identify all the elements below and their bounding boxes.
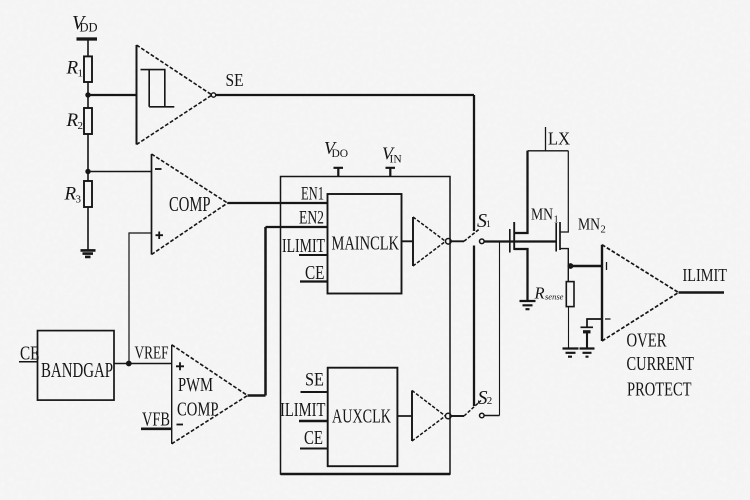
label SE (226, 70, 244, 90)
wire ILIMIT stub mainclk (299, 254, 328, 256)
PWM label (178, 375, 213, 396)
wire COMP output to EN1 (228, 202, 328, 204)
wire CE into bandgap (19, 361, 38, 363)
label EN2 (299, 208, 324, 229)
svg-text:PROTECT: PROTECT (627, 380, 692, 401)
svg-text:CE: CE (304, 428, 323, 449)
svg-text:DD: DD (80, 21, 98, 35)
COMP minus sign (155, 168, 162, 170)
resistor R1 (84, 56, 92, 82)
svg-text:OVER: OVER (627, 331, 667, 352)
wire bubble to switch S2 (451, 415, 464, 417)
svg-text:AUXCLK: AUXCLK (332, 406, 391, 428)
node VREF junction dot (126, 361, 132, 367)
wire EN2 from PWM riser (266, 226, 328, 228)
wire S2 riser join (499, 241, 501, 415)
LX label (548, 129, 570, 149)
resistor R2 (84, 108, 92, 134)
switch S1 arm (464, 229, 480, 242)
MAINCLK label (332, 233, 400, 255)
wire S1 to gates (484, 240, 556, 242)
transistor MN1 gate bar (509, 229, 511, 253)
LX bar (528, 127, 569, 151)
wire VREF riser to COMP plus (129, 233, 152, 364)
MN1 drain link (514, 151, 527, 233)
COMP label (169, 192, 211, 216)
PWM COMP label (177, 400, 219, 421)
resistor R3 label (64, 184, 82, 206)
wire node A to schmitt input (88, 94, 137, 96)
node A junction dot (85, 92, 90, 97)
wire R3 to ground (87, 207, 89, 250)
resistor R3 (84, 181, 92, 207)
wire node B to COMP minus input (88, 171, 152, 173)
svg-text:EN1: EN1 (301, 184, 324, 205)
wire SE riser lower segment (473, 246, 475, 407)
opamp plus sign (606, 262, 608, 270)
node B junction dot (85, 169, 90, 174)
svg-text:1: 1 (486, 220, 491, 230)
svg-text:sense: sense (545, 292, 564, 302)
inverter U3 triangle (413, 217, 446, 266)
svg-text:VREF: VREF (135, 343, 169, 363)
label ILIMIT auxclk (280, 400, 326, 421)
resistor Rsense (566, 282, 574, 307)
inverter U3 bubble (446, 239, 452, 245)
wire PWM riser (264, 227, 267, 396)
transistor MN1 channel bar (513, 222, 515, 250)
wire opamp minus input (587, 319, 602, 327)
ground below MN1 (520, 301, 536, 309)
outer clock block box (281, 177, 451, 475)
label CE mainclk (305, 262, 325, 284)
schmitt output bubble (211, 93, 215, 97)
schmitt hysteresis symbol (141, 70, 175, 107)
label EN1 (301, 184, 324, 205)
label VREF (135, 343, 169, 363)
label OVER (627, 331, 667, 352)
svg-text:2: 2 (78, 120, 84, 132)
svg-text:CURRENT: CURRENT (627, 354, 695, 375)
wire PWM output (248, 394, 266, 397)
VDD supply label (72, 12, 98, 35)
svg-text:SE: SE (226, 70, 244, 90)
schmitt trigger U1 triangle (137, 45, 213, 145)
switch S2 label (478, 387, 493, 409)
op-amp PWM COMP triangle (172, 345, 248, 444)
Rsense label (534, 284, 564, 303)
svg-text:ILIMIT: ILIMIT (282, 236, 325, 257)
MN2 label (578, 215, 606, 236)
node sense junction dot (568, 263, 574, 269)
inverter U7 triangle (412, 391, 445, 442)
svg-text:VFB: VFB (142, 410, 170, 431)
svg-text:MN: MN (531, 205, 553, 224)
wire AUXCLK output (397, 415, 412, 417)
MN2 source link (560, 249, 568, 282)
wire CE stub mainclk (300, 280, 328, 282)
wire VDD bar to R1 (87, 40, 89, 56)
svg-text:COMP: COMP (169, 192, 211, 216)
svg-text:MAINCLK: MAINCLK (332, 233, 400, 255)
transistor MN2 gate bar (555, 223, 557, 252)
BANDGAP label (41, 358, 113, 382)
wire cell to ground (586, 333, 588, 349)
BANDGAP box U5 (38, 331, 115, 401)
MN1 source link (514, 249, 527, 301)
label CE bandgap input (20, 344, 40, 365)
VDO label (324, 138, 348, 160)
label ILIMIT mainclk (282, 236, 325, 257)
svg-text:ILIMIT: ILIMIT (683, 265, 728, 285)
wire bubble to switch S1 (451, 240, 464, 242)
label CE auxclk (304, 428, 323, 449)
wire MAINCLK output (402, 240, 414, 242)
svg-text:BANDGAP: BANDGAP (41, 358, 113, 382)
wire node A to R2 (87, 95, 89, 108)
PWM minus sign (177, 424, 184, 426)
MN2 drain link (560, 151, 568, 232)
wire R2 to node B (87, 134, 89, 172)
VDO T pin (334, 168, 344, 177)
label CURRENT (627, 354, 695, 375)
wire SE horizontal (216, 94, 474, 96)
label ILIMIT output (683, 265, 728, 285)
COMP plus sign (156, 232, 164, 240)
AUXCLK box U6 (328, 368, 398, 467)
MN1 label (531, 205, 559, 226)
VIN T pin (386, 168, 396, 177)
wire bandgap output to node VREF (114, 363, 172, 365)
ground below reference cell (580, 349, 595, 357)
svg-text:SE: SE (305, 370, 324, 391)
svg-text:2: 2 (487, 395, 493, 407)
wire SE stub auxclk (301, 391, 328, 393)
switch S2 terminal circle (480, 413, 485, 418)
wire ILIMIT stub auxclk (299, 420, 328, 423)
reference cell top plate (581, 326, 594, 328)
svg-text:ILIMIT: ILIMIT (280, 400, 326, 421)
wire R1 to node A (87, 82, 89, 95)
svg-text:R: R (534, 284, 545, 303)
label VFB (142, 410, 170, 431)
svg-text:3: 3 (76, 194, 82, 206)
AUXCLK label (332, 406, 391, 428)
reference cell bottom plate (583, 330, 591, 333)
wire S2 to riser (484, 415, 499, 417)
VDD supply bar (77, 37, 98, 40)
transistor MN2 channel bar (559, 222, 561, 250)
op-amp U4 over current triangle (602, 245, 679, 341)
VIN label (382, 144, 402, 166)
inverter U7 bubble (445, 413, 451, 419)
wire Rsense to ground (568, 307, 570, 349)
wire SE riser down (473, 95, 475, 231)
svg-text:PWM: PWM (178, 375, 213, 396)
wire ILIMIT output (679, 291, 725, 294)
PWM plus sign (176, 362, 184, 370)
resistor R2 label (66, 110, 84, 132)
label SE auxclk (305, 370, 324, 391)
opamp minus sign (605, 318, 611, 320)
switch S1 terminal circle (480, 239, 485, 244)
label PROTECT (627, 380, 692, 401)
ground below Rsense (563, 349, 579, 357)
wire sense node to opamp plus (571, 265, 603, 268)
svg-text:MN: MN (578, 215, 600, 234)
svg-text:LX: LX (548, 129, 570, 149)
MAINCLK box U2 (328, 194, 402, 294)
resistor R1 label (66, 58, 84, 80)
op-amp COMP triangle (152, 154, 228, 255)
wire CE stub auxclk (300, 448, 328, 450)
svg-text:IN: IN (390, 154, 403, 166)
wire VFB input (141, 427, 172, 430)
svg-text:2: 2 (601, 225, 606, 236)
svg-text:1: 1 (78, 68, 84, 80)
outer box bottom emphasis (281, 473, 451, 476)
wire node B to R3 (87, 172, 89, 182)
switch S1 label (477, 210, 491, 232)
svg-text:DO: DO (332, 148, 349, 160)
switch S2 arm (464, 401, 481, 417)
ground below R3 (81, 250, 96, 257)
svg-text:EN2: EN2 (299, 208, 324, 229)
svg-text:COMP: COMP (177, 400, 219, 421)
